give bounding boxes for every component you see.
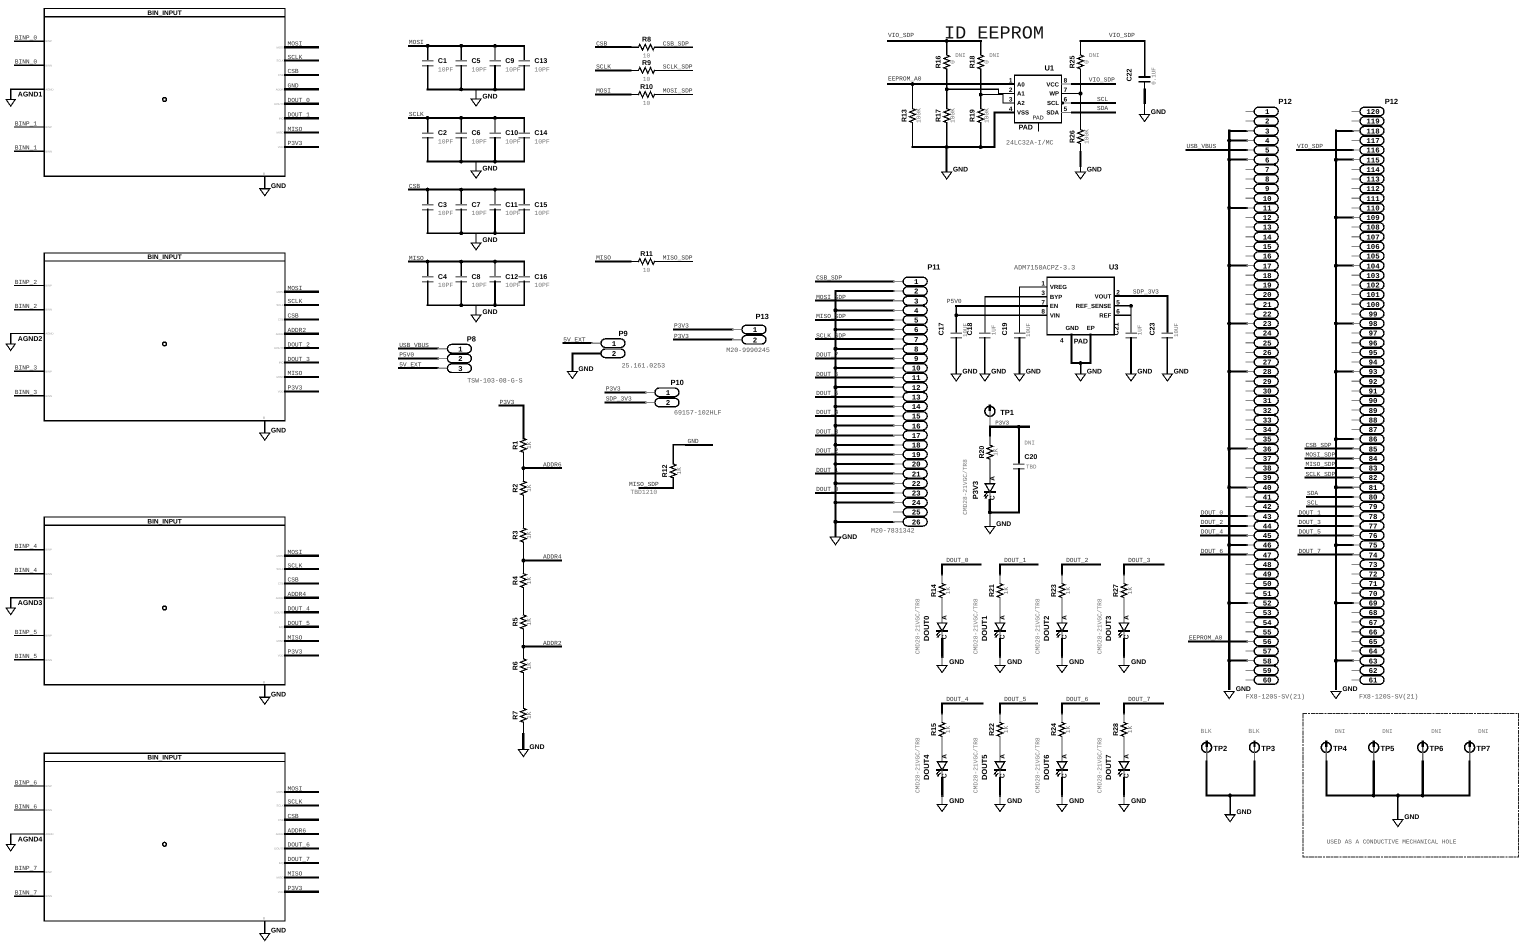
pin 39 (P12) <box>1254 473 1278 482</box>
svg-text:65: 65 <box>1369 639 1378 647</box>
pin 52 (P12) <box>1254 599 1278 608</box>
net BINN_1 wire (block 1) <box>15 150 44 152</box>
svg-text:1K: 1K <box>526 711 533 719</box>
wire P12 pin 3 to bus <box>1229 130 1247 132</box>
net CSB_SDP wire <box>655 46 693 48</box>
pin 71 (P12) <box>1360 579 1384 588</box>
svg-text:19: 19 <box>1263 283 1272 291</box>
capacitor C12 10PF <box>494 262 496 277</box>
wire P11 pin 18 to bus <box>836 444 894 446</box>
svg-text:SCLK: SCLK <box>288 298 303 305</box>
svg-text:ADM7150ACPZ-3.3: ADM7150ACPZ-3.3 <box>1014 264 1075 272</box>
svg-text:24: 24 <box>912 500 921 508</box>
svg-text:50: 50 <box>1263 581 1272 589</box>
pin 99 (P12) <box>1360 310 1384 319</box>
net DOUT_5 wire (P12 pin 76) <box>1299 534 1354 536</box>
pin 3 (P8) <box>447 364 471 373</box>
svg-text:GND: GND <box>1131 659 1146 666</box>
svg-text:112: 112 <box>1366 186 1379 194</box>
svg-text:BINN_7: BINN_7 <box>15 890 38 897</box>
svg-text:A: A <box>1123 754 1130 759</box>
pin 3 (P12) <box>1254 126 1278 135</box>
svg-text:USB_VBUS: USB_VBUS <box>1187 143 1217 150</box>
svg-text:BINP_1: BINP_1 <box>15 120 38 127</box>
net SDA wire (P12 pin 80) <box>1307 496 1353 498</box>
pin 1 (P10) <box>655 388 679 397</box>
net DOUT_6 wire (P12 pin 47) <box>1201 554 1247 556</box>
svg-text:R3: R3 <box>512 531 519 540</box>
svg-text:48: 48 <box>1263 562 1272 570</box>
wire P12 pin 48 stub <box>1246 563 1254 565</box>
wire P12 pin 57 stub <box>1246 650 1254 652</box>
pin 61 (P12) <box>1360 676 1384 685</box>
ground (TP4-TP7) <box>1397 796 1399 820</box>
svg-text:PAD: PAD <box>1033 115 1044 121</box>
pin 21 (P11) <box>903 469 927 478</box>
svg-text:AGND: AGND <box>45 87 53 91</box>
svg-text:AGND: AGND <box>45 832 53 836</box>
pin 11 (P12) <box>1254 204 1278 213</box>
wire pin 25 stub (P11) <box>894 511 904 513</box>
svg-text:24: 24 <box>1263 331 1272 339</box>
svg-text:BINN: BINN <box>45 308 52 312</box>
svg-text:AGND1: AGND1 <box>18 92 43 99</box>
wire P12 pin 107 stub <box>1352 236 1360 238</box>
pin 76 (P12) <box>1360 531 1384 540</box>
pin 27 (P12) <box>1254 358 1278 367</box>
svg-text:10PF: 10PF <box>505 139 521 146</box>
svg-text:DOUT_4: DOUT_4 <box>288 605 311 612</box>
capacitor C17 10UF <box>951 332 961 334</box>
svg-text:R19: R19 <box>970 109 977 122</box>
svg-text:118: 118 <box>1366 128 1380 136</box>
svg-text:BINP_5: BINP_5 <box>15 629 38 636</box>
svg-text:C10: C10 <box>505 130 518 137</box>
svg-text:A2: A2 <box>1017 100 1025 107</box>
svg-text:A: A <box>1061 754 1068 759</box>
svg-text:88: 88 <box>1369 417 1378 425</box>
wire P12 pin 1 stub <box>1246 111 1254 113</box>
net MISO stub (block 3) <box>285 640 318 642</box>
svg-text:MOSI: MOSI <box>277 554 284 558</box>
svg-text:62: 62 <box>1369 668 1378 676</box>
pin 88 (P12) <box>1360 416 1384 425</box>
svg-text:21: 21 <box>1263 302 1272 310</box>
pin 30 (P12) <box>1254 387 1278 396</box>
pin 89 (P12) <box>1360 406 1384 415</box>
svg-text:R2: R2 <box>512 484 519 493</box>
svg-text:TP7: TP7 <box>1476 744 1490 753</box>
svg-text:1K: 1K <box>526 441 533 449</box>
svg-text:TP1: TP1 <box>1000 408 1014 417</box>
resistor R15 1K <box>941 703 943 713</box>
wire P12 pin 2 stub <box>1246 120 1254 122</box>
pin 24 (P11) <box>903 498 927 507</box>
svg-text:94: 94 <box>1369 360 1378 368</box>
svg-text:P13: P13 <box>756 312 769 321</box>
svg-text:TBD: TBD <box>1026 464 1037 471</box>
wire TP6 to rail <box>1422 752 1424 761</box>
wire P12 pin 110 stub <box>1352 207 1360 209</box>
svg-text:SCLK: SCLK <box>596 64 611 71</box>
net VIO_SDP rail (EEPROM pull-ups) <box>888 40 981 42</box>
svg-text:C18: C18 <box>967 322 974 335</box>
svg-text:57: 57 <box>1263 649 1272 657</box>
net ADDR6 stub (block 4) <box>285 833 318 835</box>
net MISO_SDP wire (R12 bottom) <box>640 478 674 488</box>
svg-text:TP4: TP4 <box>1333 744 1348 753</box>
resistor R1 1K <box>522 437 524 439</box>
svg-text:P3V3: P3V3 <box>500 399 515 406</box>
resistor R12 1K <box>670 464 676 478</box>
wire P12 pin 52 to bus <box>1229 602 1247 604</box>
wire P12 pin 25 stub <box>1246 342 1254 344</box>
wire P12 pin 86 to bus <box>1336 438 1353 440</box>
svg-text:DNI: DNI <box>1478 728 1488 735</box>
svg-text:95: 95 <box>1369 350 1378 358</box>
pin 106 (P12) <box>1360 242 1384 251</box>
net BINN_6 wire (block 4) <box>15 809 44 811</box>
svg-text:99: 99 <box>1369 311 1378 319</box>
wire TP5 to rail <box>1373 752 1375 761</box>
pin 5 (P12) <box>1254 146 1278 155</box>
capacitor C15 10PF <box>523 190 525 205</box>
wire P12 pin 119 stub <box>1352 120 1360 122</box>
pin 109 (P12) <box>1360 213 1384 222</box>
svg-text:GND: GND <box>1007 798 1022 805</box>
svg-text:23: 23 <box>1263 321 1272 329</box>
svg-text:GND: GND <box>1087 368 1102 375</box>
wire LED cathode to ground <box>989 492 991 500</box>
resistor R9 10 <box>630 69 638 71</box>
net DOUT_2 wire (LED column) <box>1062 563 1100 565</box>
pin 50 (P12) <box>1254 579 1278 588</box>
LED DOUT2 CMD28-21VGC/TR8 <box>1057 623 1067 631</box>
pin 9 (P12) <box>1254 184 1278 193</box>
net EEPROM_A0 wire <box>888 83 1014 85</box>
ground (DOUT1) <box>995 666 1005 673</box>
svg-text:C5: C5 <box>472 58 481 65</box>
svg-text:VOUT: VOUT <box>1095 293 1112 300</box>
net 5V_EXT wire (P9 pin 1) <box>563 342 591 344</box>
wire P12 pin 72 stub <box>1352 573 1360 575</box>
net SDA wire <box>1062 111 1072 113</box>
wire P12 pin 70 stub <box>1352 592 1360 594</box>
svg-text:91: 91 <box>1369 389 1378 397</box>
pin 70 (P12) <box>1360 589 1384 598</box>
pin 1 (P11) <box>903 277 927 286</box>
svg-text:BINP: BINP <box>45 634 52 638</box>
svg-text:MISO: MISO <box>409 255 424 262</box>
wire P11 pin 20 to bus <box>836 463 894 465</box>
resistor R8 10 <box>630 46 638 48</box>
svg-text:P3V3: P3V3 <box>288 140 303 147</box>
svg-text:80: 80 <box>1369 495 1378 503</box>
net SCLK stub (block 2) <box>285 304 318 306</box>
svg-text:MOSI: MOSI <box>288 41 303 48</box>
svg-text:103: 103 <box>1366 273 1380 281</box>
svg-text:GND: GND <box>1404 814 1419 821</box>
svg-text:119: 119 <box>1366 119 1379 127</box>
pin 43 (P12) <box>1254 512 1278 521</box>
pin 2 (P8) <box>447 354 471 363</box>
svg-text:DOUT_6: DOUT_6 <box>288 842 311 849</box>
pin 21 (P12) <box>1254 300 1278 309</box>
svg-text:R28: R28 <box>1113 723 1120 736</box>
svg-text:8: 8 <box>914 346 919 354</box>
svg-text:GND: GND <box>578 366 593 373</box>
svg-text:34: 34 <box>1263 427 1272 435</box>
junction (PAD/GND) <box>1079 361 1083 365</box>
pin 5 (P11) <box>903 316 927 325</box>
net SDP_3V3 wire (P10 pin 2) <box>606 402 646 404</box>
wire P12 pin 63 to bus <box>1336 660 1353 662</box>
wire ladder bottom <box>522 722 524 734</box>
junction (P3V3/C20) <box>1017 425 1021 429</box>
svg-text:CMD28-21VGC/TR8: CMD28-21VGC/TR8 <box>914 598 921 654</box>
resistor R20 1K <box>989 427 991 436</box>
net DOUT_2 wire (P11 pin 19) <box>816 453 893 455</box>
net P3V3 wire (P13 pin 1) <box>674 329 733 331</box>
svg-text:2: 2 <box>458 356 462 364</box>
pin 115 (P12) <box>1360 155 1384 164</box>
resistor R19 100K <box>980 95 982 109</box>
junction (rail/GND stem) <box>1396 794 1400 798</box>
net GND wire (R12 top) <box>673 445 712 463</box>
svg-text:DOUT0: DOUT0 <box>274 847 284 851</box>
svg-text:1K: 1K <box>526 531 533 539</box>
wire P12 pin 28 to bus <box>1229 371 1247 373</box>
svg-text:DNI: DNI <box>989 52 999 59</box>
svg-text:10: 10 <box>643 53 651 60</box>
wire P12 pin 46 to bus <box>1229 544 1247 546</box>
svg-text:DOUT5: DOUT5 <box>980 755 989 780</box>
test point TP1 <box>985 406 995 416</box>
wire U1 pin 2 (A1) <box>947 89 1015 93</box>
svg-text:R6: R6 <box>512 661 519 670</box>
svg-text:BINN_4: BINN_4 <box>15 567 38 574</box>
svg-text:113: 113 <box>1366 177 1380 185</box>
svg-text:A: A <box>1123 615 1130 620</box>
svg-text:9: 9 <box>1265 186 1269 194</box>
net BINN_4 wire (block 3) <box>15 573 44 575</box>
resistor R14 1K <box>941 564 943 574</box>
svg-text:C1: C1 <box>438 58 447 65</box>
ground (P9) <box>567 372 577 379</box>
dashed box USED AS A CONDUCTIVE MECHANICAL HOLE <box>1303 714 1519 857</box>
svg-text:IRQ: IRQ <box>279 116 285 120</box>
sheet symbol BIN_INPUT block 3 <box>44 517 285 685</box>
net MOSI stub (block 1) <box>285 46 318 48</box>
pin 101 (P12) <box>1360 290 1384 299</box>
junction (REF_SENSE/REF/C21) <box>1129 304 1133 308</box>
svg-text:R17: R17 <box>936 109 943 122</box>
net MISO rail (cap bank) <box>409 261 524 263</box>
svg-text:GND: GND <box>953 166 968 173</box>
svg-text:DOUT4: DOUT4 <box>922 754 931 780</box>
svg-text:SCLK: SCLK <box>276 303 283 307</box>
ground (DOUT5) <box>995 804 1005 811</box>
svg-text:R11: R11 <box>640 251 653 258</box>
svg-text:R13: R13 <box>902 109 909 122</box>
svg-text:107: 107 <box>1366 234 1379 242</box>
wire P12 pin 120 stub <box>1352 111 1360 113</box>
net MISO_SDP wire <box>655 261 693 263</box>
svg-text:DOUT_7: DOUT_7 <box>1299 548 1322 555</box>
svg-text:BINN: BINN <box>45 572 52 576</box>
svg-text:20: 20 <box>912 462 921 470</box>
svg-text:MISO_SDP: MISO_SDP <box>629 481 659 488</box>
svg-text:117: 117 <box>1366 138 1379 146</box>
wire P12 pin 15 stub <box>1246 245 1254 247</box>
svg-text:10PF: 10PF <box>472 139 488 146</box>
svg-text:BINP_2: BINP_2 <box>15 279 38 286</box>
net MOSI wire <box>596 94 630 96</box>
wire P12 pin 6 to bus <box>1229 159 1247 161</box>
svg-text:26: 26 <box>912 519 921 527</box>
svg-text:1K: 1K <box>526 484 533 492</box>
svg-text:10: 10 <box>1263 196 1272 204</box>
wire P12 pin 94 stub <box>1352 361 1360 363</box>
svg-text:DOUT_6: DOUT_6 <box>1201 548 1224 555</box>
svg-text:DOUT1: DOUT1 <box>980 616 989 641</box>
pin 9 (P11) <box>903 354 927 363</box>
net P3V3 stub (block 3) <box>285 654 318 656</box>
wire DOUT0 cathode <box>941 631 943 639</box>
svg-text:USED AS A CONDUCTIVE MECHANICA: USED AS A CONDUCTIVE MECHANICAL HOLE <box>1327 839 1457 846</box>
wire P12 pin 99 stub <box>1352 313 1360 315</box>
LED DOUT0 CMD28-21VGC/TR8 <box>937 623 947 631</box>
wire P12 pin 103 stub <box>1352 274 1360 276</box>
svg-text:10PF: 10PF <box>505 282 521 289</box>
wire DOUT6 cathode <box>1061 770 1063 778</box>
svg-text:VIO_SDP: VIO_SDP <box>1297 143 1323 150</box>
svg-text:GND: GND <box>271 427 286 434</box>
wire P12 pin 106 stub <box>1352 245 1360 247</box>
svg-text:C4: C4 <box>438 274 447 281</box>
svg-text:DNI: DNI <box>955 52 965 59</box>
svg-text:R8: R8 <box>642 37 651 44</box>
svg-text:0: 0 <box>1083 60 1090 64</box>
svg-text:GND: GND <box>482 237 497 244</box>
svg-text:30: 30 <box>1263 389 1272 397</box>
svg-text:R1: R1 <box>512 441 519 450</box>
pin 19 (P12) <box>1254 281 1278 290</box>
net ADDR2 stub (block 2) <box>285 333 318 335</box>
svg-text:C20: C20 <box>1024 454 1037 461</box>
resistor R26 100K <box>1080 94 1082 130</box>
pin 1 (P12) <box>1254 107 1278 116</box>
svg-text:C21: C21 <box>1113 322 1120 335</box>
pin 107 (P12) <box>1360 232 1384 241</box>
svg-text:10PF: 10PF <box>505 66 521 73</box>
svg-text:A: A <box>942 615 949 620</box>
svg-text:31: 31 <box>1263 398 1272 406</box>
pin 2 (P9) <box>601 349 625 358</box>
wire P12 pin 39 stub <box>1246 477 1254 479</box>
svg-text:60: 60 <box>1263 678 1272 686</box>
wire C20 bottom <box>990 511 1019 513</box>
svg-text:63: 63 <box>1369 658 1378 666</box>
svg-text:CSB: CSB <box>288 577 299 584</box>
net DOUT_0 wire (LED column) <box>942 563 981 565</box>
svg-text:19: 19 <box>912 452 921 460</box>
svg-text:3: 3 <box>1009 97 1013 104</box>
wire TP3 to rail <box>1254 752 1256 761</box>
pin 83 (P12) <box>1360 464 1384 473</box>
svg-text:SCLK_SDP: SCLK_SDP <box>816 332 846 339</box>
svg-text:SDP_3V3: SDP_3V3 <box>606 396 632 403</box>
net BINN_5 wire (block 3) <box>15 659 44 661</box>
wire P12 pin 67 stub <box>1352 621 1360 623</box>
pin 37 (P12) <box>1254 454 1278 463</box>
svg-text:GND: GND <box>1174 368 1189 375</box>
wire P12 pin 55 stub <box>1246 631 1254 633</box>
svg-text:16: 16 <box>912 423 921 431</box>
wire P11 pin 22 to bus <box>836 482 894 484</box>
svg-text:1K: 1K <box>676 467 683 475</box>
svg-text:GND: GND <box>1026 368 1041 375</box>
svg-text:DOUT_0: DOUT_0 <box>946 557 969 564</box>
ground (P12) <box>1224 692 1234 699</box>
svg-text:6: 6 <box>914 327 919 335</box>
pin 64 (P12) <box>1360 647 1384 656</box>
pin 54 (P12) <box>1254 618 1278 627</box>
svg-text:C9: C9 <box>505 58 514 65</box>
svg-text:DOUT2: DOUT2 <box>1042 616 1051 641</box>
LED DOUT1 CMD28-21VGC/TR8 <box>995 623 1005 631</box>
wire P12 pin 12 stub <box>1246 216 1254 218</box>
svg-text:VSS: VSS <box>1017 110 1029 117</box>
svg-text:10PF: 10PF <box>438 66 454 73</box>
net AGND3 (AGND pin, block 3) <box>11 598 45 608</box>
junction (TP2/TP3 rail) <box>1228 794 1232 798</box>
pin 46 (P12) <box>1254 541 1278 550</box>
net BINP_5 wire (block 3) <box>15 634 44 636</box>
pin 80 (P12) <box>1360 493 1384 502</box>
pin 19 (P11) <box>903 450 927 459</box>
svg-text:86: 86 <box>1369 437 1378 445</box>
net DOUT_4 wire (P11 pin 15) <box>816 415 893 417</box>
net SCLK wire <box>596 69 630 71</box>
svg-text:59: 59 <box>1263 668 1272 676</box>
wire P11 pin 16 to bus <box>836 425 894 427</box>
svg-text:R15: R15 <box>931 723 938 736</box>
svg-text:DOUT0: DOUT0 <box>274 346 284 350</box>
capacitor C22 0.1UF <box>1144 41 1146 77</box>
svg-text:CSB: CSB <box>288 313 299 320</box>
wire P12 pin 90 stub <box>1352 400 1360 402</box>
svg-text:GND: GND <box>482 93 497 100</box>
svg-text:GND: GND <box>271 691 286 698</box>
svg-text:VDD: VDD <box>278 145 284 149</box>
svg-text:CSB: CSB <box>278 73 284 77</box>
wire DOUT4 cathode <box>941 770 943 778</box>
svg-text:GND: GND <box>1236 686 1251 693</box>
svg-text:10UF: 10UF <box>1025 323 1032 337</box>
svg-text:105: 105 <box>1366 254 1380 262</box>
svg-text:R9: R9 <box>642 60 651 67</box>
svg-text:10: 10 <box>912 366 921 374</box>
wire (ladder) <box>522 542 524 574</box>
pin 119 (P12) <box>1360 117 1384 126</box>
net CSB stub (block 1) <box>285 74 318 76</box>
svg-text:P3V3: P3V3 <box>674 323 689 330</box>
wire P12 pin 18 stub <box>1246 274 1254 276</box>
capacitor C20 TBD DNI <box>1018 427 1020 464</box>
svg-text:3: 3 <box>1265 128 1270 136</box>
svg-text:51: 51 <box>1263 591 1272 599</box>
